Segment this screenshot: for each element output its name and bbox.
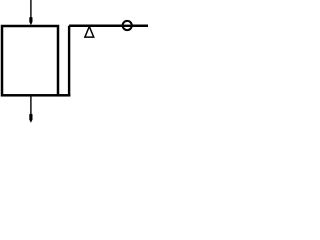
wire: top input line xyxy=(30,0,32,18)
arrowhead: input arrow pointing down into block xyxy=(29,17,32,25)
fulcrum triangle xyxy=(85,27,94,38)
arrowhead: output arrow pointing down xyxy=(29,114,32,123)
background xyxy=(0,0,148,126)
wire: top-right horizontal line xyxy=(69,25,148,28)
circle indicator xyxy=(123,21,132,30)
wire: bottom output line xyxy=(30,96,32,115)
wire: bottom edge extension to riser xyxy=(58,94,70,97)
block: main rectangle xyxy=(2,26,58,95)
wire: vertical riser line xyxy=(68,26,70,97)
wire: line through circle xyxy=(121,25,133,27)
